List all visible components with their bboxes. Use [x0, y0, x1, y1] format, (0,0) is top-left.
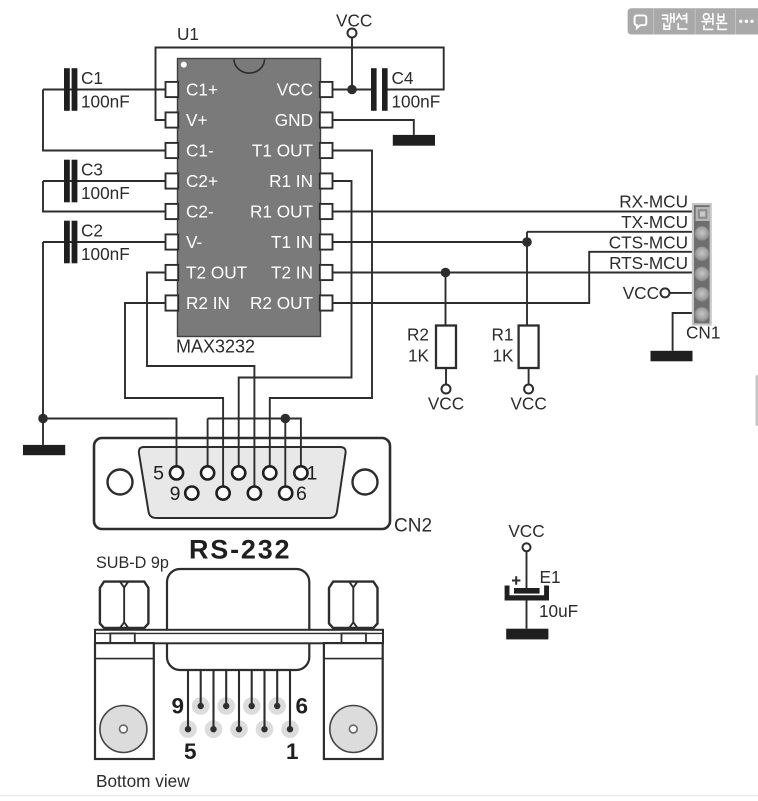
- svg-text:VCC: VCC: [428, 394, 464, 414]
- svg-text:T1 IN: T1 IN: [271, 232, 313, 252]
- svg-text:C2+: C2+: [186, 171, 218, 191]
- svg-text:T2 IN: T2 IN: [271, 263, 313, 283]
- svg-text:6: 6: [296, 483, 307, 505]
- svg-text:R1 IN: R1 IN: [269, 171, 313, 191]
- svg-text:C3: C3: [81, 160, 103, 180]
- svg-text:100nF: 100nF: [81, 244, 130, 264]
- svg-text:GND: GND: [275, 110, 313, 130]
- svg-text:CTS-MCU: CTS-MCU: [609, 233, 688, 253]
- svg-text:C4: C4: [392, 68, 414, 88]
- svg-text:RTS-MCU: RTS-MCU: [609, 253, 688, 273]
- svg-text:V-: V-: [186, 232, 202, 252]
- svg-text:100nF: 100nF: [81, 92, 130, 112]
- svg-text:VCC: VCC: [508, 521, 544, 541]
- svg-text:R2 IN: R2 IN: [186, 293, 230, 313]
- svg-text:SUB-D 9p: SUB-D 9p: [96, 554, 169, 572]
- svg-text:C1+: C1+: [186, 80, 218, 100]
- svg-text:6: 6: [296, 694, 309, 719]
- svg-text:MAX3232: MAX3232: [176, 337, 255, 357]
- svg-text:TX-MCU: TX-MCU: [621, 212, 688, 232]
- svg-text:C1-: C1-: [186, 141, 214, 161]
- svg-text:VCC: VCC: [623, 283, 659, 303]
- svg-text:5: 5: [153, 463, 164, 485]
- svg-text:VCC: VCC: [277, 80, 313, 100]
- svg-text:R1 OUT: R1 OUT: [250, 202, 314, 222]
- svg-text:1K: 1K: [492, 346, 514, 366]
- svg-text:100nF: 100nF: [392, 92, 441, 112]
- svg-text:5: 5: [184, 739, 197, 764]
- svg-text:9: 9: [171, 694, 184, 719]
- svg-text:R2 OUT: R2 OUT: [250, 293, 314, 313]
- svg-text:E1: E1: [540, 567, 561, 587]
- svg-text:100nF: 100nF: [81, 183, 130, 203]
- svg-text:C2: C2: [81, 221, 103, 241]
- svg-text:T1 OUT: T1 OUT: [252, 141, 314, 161]
- svg-text:C2-: C2-: [186, 202, 214, 222]
- svg-text:Bottom view: Bottom view: [96, 771, 190, 791]
- svg-text:1: 1: [286, 739, 299, 764]
- svg-text:10uF: 10uF: [539, 601, 578, 621]
- svg-text:C1: C1: [81, 68, 103, 88]
- svg-text:RX-MCU: RX-MCU: [619, 192, 688, 212]
- svg-text:U1: U1: [177, 24, 199, 44]
- svg-text:VCC: VCC: [336, 11, 372, 31]
- svg-text:CN2: CN2: [394, 516, 432, 537]
- svg-text:CN1: CN1: [686, 323, 720, 343]
- svg-text:1K: 1K: [408, 346, 430, 366]
- svg-text:9: 9: [170, 483, 181, 505]
- svg-text:T2 OUT: T2 OUT: [186, 263, 248, 283]
- svg-text:RS-232: RS-232: [189, 535, 291, 565]
- svg-text:R1: R1: [492, 325, 514, 345]
- svg-text:1: 1: [307, 463, 318, 485]
- svg-text:VCC: VCC: [510, 394, 546, 414]
- svg-text:V+: V+: [186, 110, 208, 130]
- svg-text:R2: R2: [407, 325, 429, 345]
